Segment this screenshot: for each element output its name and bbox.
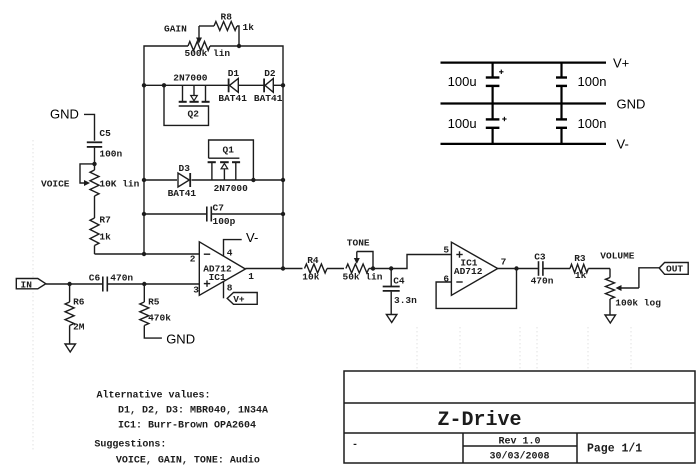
op-amp U1A AD712 IC1 [199, 242, 245, 295]
svg-text:VOICE: VOICE [41, 179, 70, 190]
svg-text:C4: C4 [393, 276, 405, 287]
svg-text:BAT41: BAT41 [168, 188, 197, 199]
wire: C7 rail [142, 212, 285, 216]
svg-text:R6: R6 [73, 297, 85, 308]
note: suggestions [94, 439, 260, 467]
svg-text:500k lin: 500k lin [185, 48, 231, 59]
svg-text:Z-Drive: Z-Drive [437, 409, 521, 432]
svg-text:100p: 100p [213, 216, 236, 227]
svg-text:7: 7 [501, 257, 507, 268]
svg-text:1: 1 [248, 271, 254, 282]
svg-text:470n: 470n [531, 276, 554, 287]
svg-text:D2: D2 [264, 68, 276, 79]
net V+ rail [441, 56, 630, 71]
svg-text:100n: 100n [578, 74, 607, 89]
svg-text:V-: V- [246, 230, 258, 245]
diode D2 BAT41 [254, 68, 283, 104]
pin 4 V- (IC1a) [224, 230, 259, 259]
capacitor 100u (GND to V-) [448, 104, 507, 144]
svg-text:1k: 1k [243, 22, 255, 33]
resistor R4 10k [302, 255, 344, 283]
port IN [16, 279, 46, 291]
svg-text:5: 5 [443, 245, 449, 256]
svg-text:2N7000: 2N7000 [214, 183, 249, 194]
svg-text:3.3n: 3.3n [394, 295, 417, 306]
capacitor C7 100p [207, 203, 236, 228]
pin 8 V+ flag (IC1a) [224, 281, 258, 305]
svg-text:GND: GND [50, 107, 79, 122]
net GND rail [441, 97, 646, 112]
svg-text:3: 3 [193, 285, 199, 296]
svg-text:Rev 1.0: Rev 1.0 [498, 437, 540, 448]
svg-text:Q1: Q1 [223, 145, 235, 156]
capacitor C6 470n [89, 273, 134, 292]
svg-text:2: 2 [190, 254, 196, 265]
wire: drive rail (2N7000/D1/D2) [142, 83, 285, 87]
svg-text:C7: C7 [213, 203, 225, 214]
capacitor 100n (V+ to GND) [556, 63, 606, 104]
potentiometer TONE 50k lin [343, 238, 383, 283]
capacitor 100u (V+ to GND) [448, 63, 504, 104]
svg-text:VOLUME: VOLUME [600, 251, 635, 262]
svg-text:100k log: 100k log [615, 298, 661, 309]
svg-text:C5: C5 [99, 128, 111, 139]
wire: input wire to pin3 [46, 282, 200, 296]
svg-text:100u: 100u [448, 74, 477, 89]
svg-text:R4: R4 [307, 255, 319, 266]
svg-text:-: - [352, 440, 358, 451]
op-amp U1B AD712 IC1 [443, 242, 506, 295]
capacitor 100n (GND to V-) [556, 104, 606, 144]
title block frame [344, 371, 695, 463]
potentiometer VOLUME 100k log [600, 251, 661, 316]
svg-text:R3: R3 [574, 253, 586, 264]
svg-text:D1: D1 [228, 68, 240, 79]
node GND (voice chain top) [50, 107, 95, 141]
svg-text:TONE: TONE [347, 238, 370, 249]
svg-text:V+: V+ [613, 56, 629, 71]
potentiometer GAIN 500k lin [164, 24, 230, 60]
transistor Q1 2N7000 [208, 140, 254, 194]
svg-text:IN: IN [21, 280, 33, 291]
svg-text:8: 8 [227, 283, 233, 294]
wire: output of IC1a / pin 1 [245, 266, 302, 282]
svg-text:BAT41: BAT41 [254, 93, 283, 104]
title block revision cell [352, 437, 550, 463]
svg-text:GND: GND [166, 332, 195, 347]
svg-text:4: 4 [227, 248, 233, 259]
svg-text:C6: C6 [89, 273, 101, 284]
wire: tone node to pin 5 [369, 255, 452, 271]
capacitor C4 3.3n [383, 269, 417, 315]
wire: feedback of IC1b (pin 6) [436, 266, 519, 308]
svg-text:2N7000: 2N7000 [173, 73, 208, 84]
svg-text:100n: 100n [578, 116, 607, 131]
svg-text:10K lin: 10K lin [99, 179, 139, 190]
resistor R6 2M [65, 284, 85, 344]
svg-text:Q2: Q2 [188, 109, 200, 120]
wire: top feedback rail with corners [144, 46, 283, 269]
svg-text:100u: 100u [448, 116, 477, 131]
svg-text:IC1: Burr-Brown OPA2604: IC1: Burr-Brown OPA2604 [118, 421, 256, 432]
svg-text:Alternative values:: Alternative values: [97, 390, 211, 402]
diode D1 BAT41 [218, 68, 247, 104]
wire: D3/Q1 rail [142, 178, 285, 182]
svg-text:10k: 10k [302, 272, 319, 283]
svg-text:2M: 2M [73, 322, 85, 333]
svg-text:D3: D3 [179, 163, 191, 174]
diode D3 BAT41 [168, 163, 197, 199]
svg-text:V-: V- [617, 137, 629, 152]
svg-text:1k: 1k [99, 232, 111, 243]
resistor R7 1k [90, 196, 111, 254]
wire: pin2 wire [95, 252, 200, 265]
svg-text:BAT41: BAT41 [218, 93, 247, 104]
resistor R8 1k [199, 12, 254, 49]
transistor Q2 2N7000 [162, 73, 210, 126]
svg-text:VOICE, GAIN, TONE: Audio: VOICE, GAIN, TONE: Audio [116, 455, 260, 467]
svg-text:R5: R5 [148, 297, 160, 308]
capacitor C5 100n [87, 128, 123, 166]
svg-text:V+: V+ [233, 294, 245, 305]
svg-text:OUT: OUT [666, 264, 683, 275]
svg-text:Page 1/1: Page 1/1 [587, 443, 642, 456]
capacitor C3 470n [531, 252, 570, 287]
svg-text:6: 6 [443, 274, 449, 285]
svg-text:1k: 1k [575, 270, 587, 281]
resistor R5 470k [140, 284, 171, 338]
ground (below VOLUME) [605, 315, 616, 323]
svg-text:D1, D2, D3: MBR040, 1N34A: D1, D2, D3: MBR040, 1N34A [118, 406, 268, 417]
note: alternative values [97, 390, 269, 432]
svg-text:AD712: AD712 [454, 266, 483, 277]
svg-text:30/03/2008: 30/03/2008 [489, 451, 549, 463]
svg-text:Suggestions:: Suggestions: [94, 439, 166, 451]
svg-text:470n: 470n [110, 273, 133, 284]
svg-text:50k lin: 50k lin [343, 272, 383, 283]
potentiometer VOICE 10K lin [41, 164, 140, 196]
svg-text:GAIN: GAIN [164, 24, 187, 35]
net V- rail [441, 137, 629, 152]
ground (below C4) [386, 315, 397, 323]
svg-text:R7: R7 [99, 215, 111, 226]
svg-text:470k: 470k [148, 313, 171, 324]
ground (below R6) [65, 344, 76, 352]
port OUT [659, 263, 688, 275]
svg-text:100n: 100n [99, 149, 122, 160]
svg-text:IC1: IC1 [209, 272, 226, 283]
resistor R3 1k [570, 253, 610, 281]
svg-text:C3: C3 [534, 252, 546, 263]
svg-text:R8: R8 [221, 12, 233, 23]
wire: output of IC1b (pin 7) [498, 268, 538, 270]
svg-text:GND: GND [617, 97, 646, 112]
